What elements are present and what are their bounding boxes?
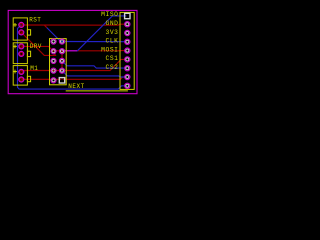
svg-text:NEXT: NEXT xyxy=(68,83,84,90)
wire: magenta overlap segment (red+blue share run) xyxy=(62,50,77,52)
connector J5 box (right 1x9 header) xyxy=(120,12,134,89)
background xyxy=(0,0,141,100)
svg-text:RST: RST xyxy=(29,17,41,24)
wire: blue diagonal from via to center row1 right pad xyxy=(47,28,62,42)
svg-text:MOSI: MOSI xyxy=(101,46,118,53)
svg-text:CLK: CLK xyxy=(106,38,119,45)
pads J4 right column xyxy=(59,39,64,73)
pad J5-9 xyxy=(125,83,130,88)
wire: blue trace from RST pad1 down left side to pad9 xyxy=(18,25,127,89)
svg-text:CS1: CS1 xyxy=(106,55,119,62)
wire: red stub descending to via xyxy=(44,25,46,27)
pad J5-3 (3V3) xyxy=(125,30,130,35)
plus mark J1 xyxy=(13,23,17,27)
svg-text:MISO: MISO xyxy=(101,11,118,18)
svg-text:DRV: DRV xyxy=(30,43,42,50)
wire: blue trace center row2 right pad to MISO pad xyxy=(62,16,127,51)
board outline (Edge.Cuts) xyxy=(8,10,137,93)
pad J3-2 xyxy=(19,77,24,82)
wire: blue trace center row3 right pad to CS2 pad xyxy=(62,61,127,68)
pad J4 pin1 square grey xyxy=(59,78,64,83)
wire: blue trace center row1 right pad to CLK pad xyxy=(62,41,127,43)
pad J5-8 xyxy=(125,74,130,79)
svg-text:GND: GND xyxy=(106,20,119,27)
wire: red trace DRV pad1 to MOSI pad xyxy=(21,46,126,50)
pad J5-2 (GND) xyxy=(125,22,130,27)
connector J1 box (RST) xyxy=(13,18,27,40)
plus mark J2 xyxy=(13,45,17,49)
pad J2-1 xyxy=(19,44,24,49)
svg-text:M1: M1 xyxy=(30,65,38,72)
connector J3 box (M1) xyxy=(13,66,27,86)
pad J5-5 (MOSI) xyxy=(125,48,130,53)
connector J2 box (DRV) xyxy=(13,43,27,64)
wire: red trace M1 pad1 to CS1 pad xyxy=(21,59,126,71)
wire: red trace RST pad1 to GND pad xyxy=(21,24,126,25)
svg-text:CS2: CS2 xyxy=(106,64,119,71)
pad J5-4 (CLK) xyxy=(125,39,130,44)
wire: blue trace center row4 right pad to pad8 xyxy=(62,71,127,77)
pad J1-2 xyxy=(19,30,24,35)
pad J2-2 xyxy=(19,51,24,56)
plus mark J3 xyxy=(13,70,17,74)
connector J4 box (center 2x5 header) xyxy=(50,39,67,85)
pads J4 left column xyxy=(51,39,56,83)
pad J5-1 square grey (MISO) xyxy=(125,13,130,18)
pad J1-1 xyxy=(19,22,24,27)
svg-text:3V3: 3V3 xyxy=(106,29,119,36)
connector J1 notch xyxy=(27,30,30,35)
pad J5-7 (CS2) xyxy=(125,66,130,71)
pad J3-1 xyxy=(19,69,24,74)
connector J3 notch xyxy=(27,76,30,81)
wire: red trace M1 pad2 to center row5 left pad xyxy=(21,77,126,80)
wire: red diagonal RST pad2 joining DRV net xyxy=(21,32,55,55)
wire: red vertical tying center right pads rows2-4 xyxy=(61,51,63,70)
connector J2 notch xyxy=(27,51,30,56)
pad J5-6 (CS1) xyxy=(125,57,130,62)
silkscreen line bottom of NEXT footprint xyxy=(66,90,128,92)
